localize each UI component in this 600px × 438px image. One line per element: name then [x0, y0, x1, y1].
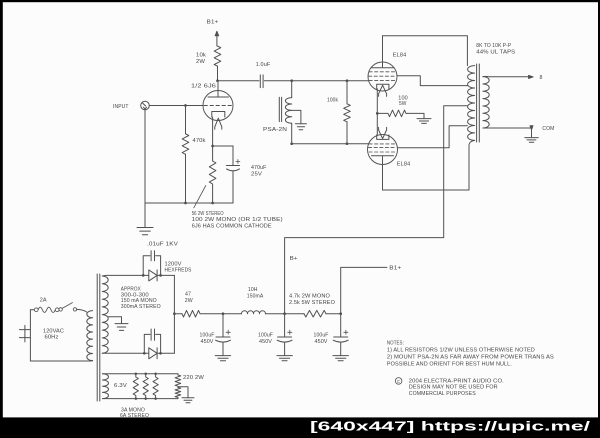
ground cathode resistor	[417, 119, 431, 124]
heater filament 2	[143, 374, 148, 399]
svg-text:150mA: 150mA	[247, 294, 264, 300]
wire plug to fuse	[30, 309, 34, 311]
wire V3 g2 to UL tap	[398, 126, 468, 148]
node 100k top	[346, 79, 349, 82]
svg-text:INPUT: INPUT	[113, 104, 129, 110]
resistor 100k grid return	[344, 104, 351, 122]
wire choke to 4.7k	[266, 313, 305, 315]
node PSA-2N top	[290, 79, 293, 82]
node shared cathodes	[376, 112, 379, 115]
wire rect node to 47R	[174, 313, 182, 315]
tube V1 cathode bracket	[212, 112, 225, 118]
tube V2 plate bar and lead	[372, 36, 394, 68]
wire T2 primary bottom to V3 plate	[383, 140, 475, 190]
wire heater bottom bus	[103, 398, 178, 400]
svg-text:10k: 10k	[196, 52, 206, 58]
tube V2 cathode bracket	[377, 84, 389, 89]
ground cap1	[215, 356, 231, 361]
wire V1 cathode down	[212, 117, 214, 146]
leader line cathode resistor note	[194, 186, 206, 208]
node first filter cap	[222, 312, 225, 315]
ground main input bus	[137, 203, 153, 235]
svg-text:6.3V: 6.3V	[114, 383, 127, 389]
wire bypass cap bottom lead	[232, 171, 234, 203]
wire coupling cap to grids	[264, 80, 368, 82]
capacitor 470uF 25V plates	[227, 166, 240, 171]
transformer T2 primary winding	[468, 66, 475, 141]
svg-text:1) ALL RESISTORS 1/2W UNLESS O: 1) ALL RESISTORS 1/2W UNLESS OTHERWISE N…	[387, 348, 535, 354]
tube V3 grid g2 dashed	[369, 147, 397, 149]
arrow B1+ feed	[215, 31, 219, 36]
arrow terminal COM	[530, 126, 533, 130]
wire COM to ground	[531, 130, 533, 138]
snubber loop bottom	[144, 334, 160, 353]
svg-text:47: 47	[185, 292, 191, 298]
tube V2 heater	[379, 85, 387, 96]
wire PSA-2N center tap	[292, 110, 301, 123]
svg-text:B+: B+	[290, 256, 298, 262]
wire input jack shield down	[144, 110, 146, 203]
tube V1 grid dashed	[204, 105, 232, 107]
wire V2 plate top rail	[383, 36, 468, 66]
svg-text:100 2W MONO (OR 1/2 TUBE): 100 2W MONO (OR 1/2 TUBE)	[192, 217, 283, 223]
wire heater top bus	[103, 373, 178, 375]
wire T1 CT tap	[108, 317, 121, 324]
autoformer PSA-2N winding	[285, 98, 291, 124]
tube V3 plate bar and lead	[372, 156, 394, 190]
svg-text:2W: 2W	[185, 298, 194, 304]
wire bypass cap top lead	[232, 146, 234, 166]
transformer T2 core	[477, 64, 480, 142]
svg-text:POSSIBLE AND ORIENT FOR BEST H: POSSIBLE AND ORIENT FOR BEST HUM NULL.	[387, 362, 512, 368]
svg-text:1.0uF: 1.0uF	[256, 62, 271, 68]
wire cathode to bypass cap	[213, 145, 233, 147]
ground T1 center tap	[115, 324, 128, 331]
svg-text:B1+: B1+	[207, 20, 219, 26]
wire 470k bottom lead	[185, 154, 187, 203]
svg-text:6A STEREO: 6A STEREO	[120, 413, 149, 419]
transformer T1 6.3V winding	[103, 374, 109, 399]
transformer T2 secondary winding	[483, 77, 489, 128]
polarity + cap1	[226, 330, 230, 334]
wire diode D1 out	[157, 274, 174, 276]
node 470k to ground bus	[184, 202, 187, 205]
tube V2 grid g1 dashed	[369, 80, 396, 82]
node heater 2 bottom	[144, 397, 147, 400]
svg-text:EL84: EL84	[393, 52, 407, 58]
wire 470k top lead	[185, 106, 187, 134]
node heater 1 top	[135, 373, 138, 376]
wire T2 secondary top to 8 ohm	[483, 75, 529, 77]
wire cap2 top lead	[284, 314, 286, 337]
svg-text:220 2W: 220 2W	[183, 375, 205, 381]
wire 10k to plate node	[217, 66, 219, 81]
wire plate node to coupling cap	[218, 80, 260, 82]
capacitor 100uF 450V no3	[333, 337, 348, 342]
wire plug vertical	[29, 310, 31, 361]
tube V3 heater	[379, 127, 387, 138]
wire humdinger tap to ground	[178, 387, 188, 398]
svg-text:.01uF 1KV: .01uF 1KV	[147, 242, 178, 248]
svg-text:C: C	[397, 379, 400, 384]
capacitor 100uF 450V no1	[216, 337, 231, 342]
wire PSA-2N bottom lead	[291, 123, 293, 144]
node snubber bottom left	[143, 352, 146, 355]
wire input jack to 6J6 grid	[149, 105, 203, 107]
wire 100k bottom lead	[346, 122, 348, 144]
node grid 6J6 / 470k junction	[184, 104, 187, 107]
svg-text:8: 8	[540, 75, 543, 81]
copyright symbol	[395, 378, 402, 385]
wire cathodes to 100R	[377, 112, 388, 114]
node snubber bottom right	[159, 352, 162, 355]
svg-text:450V: 450V	[259, 339, 272, 345]
capacitor 100uF 450V no2	[277, 337, 292, 342]
tube V3 grid g1 dashed	[369, 143, 396, 145]
heater filament 3	[153, 374, 158, 399]
snubber loop top	[143, 256, 160, 276]
wire ground bus under input stage	[145, 202, 233, 204]
capacitor 1.0uF coupling	[260, 75, 263, 88]
wire 100R to ground	[406, 113, 424, 118]
transformer T1 HV secondary winding	[102, 276, 108, 353]
wire cathode resistor bottom lead	[212, 184, 214, 203]
wire 47R to choke	[200, 313, 242, 315]
tube V3 EL84 envelope	[368, 135, 398, 165]
polarity + 470uF	[236, 160, 240, 164]
node 100k bottom	[346, 142, 349, 145]
tube V3 grid g3 dashed	[369, 151, 396, 153]
wire plug bottom to primary	[30, 360, 92, 362]
svg-text:COM: COM	[542, 126, 554, 132]
svg-text:8K TO 10K P-P: 8K TO 10K P-P	[476, 43, 511, 49]
tube V1 1/2 6J6 envelope	[203, 91, 233, 121]
input jack J1	[141, 101, 150, 110]
svg-text:100k: 100k	[327, 97, 338, 103]
resistor 220 2W humdinger	[175, 374, 181, 399]
wire B1+ to 10k	[216, 35, 218, 46]
svg-text:5W: 5W	[399, 101, 407, 107]
heater filament 1	[133, 374, 138, 399]
wire cap1 top lead	[222, 314, 224, 337]
svg-text:2.5k 5W STEREO: 2.5k 5W STEREO	[289, 300, 336, 306]
transformer T1 primary winding	[87, 311, 93, 361]
resistor 47 2W	[182, 310, 200, 317]
wire cap3 bottom lead	[340, 342, 342, 355]
svg-text:100uF: 100uF	[314, 332, 329, 338]
node B1+ filter cap	[339, 312, 342, 315]
resistor 4.7k/2.5k dropping	[304, 310, 326, 317]
svg-text:1/2 6J6: 1/2 6J6	[191, 84, 216, 90]
svg-text:NOTES:: NOTES:	[387, 341, 404, 347]
svg-text:PSA-2N: PSA-2N	[263, 127, 287, 133]
svg-text:2004 ELECTRA-PRINT AUDIO CO.: 2004 ELECTRA-PRINT AUDIO CO.	[409, 378, 504, 384]
svg-text:4.7k 2W MONO: 4.7k 2W MONO	[289, 293, 331, 299]
polarity + cap3	[344, 330, 348, 334]
wire V3 cathode up	[376, 113, 378, 134]
tube V1 heater	[215, 118, 222, 129]
tube V3 cathode bracket	[377, 135, 389, 140]
fuse 2A	[34, 307, 59, 312]
svg-text:100uF: 100uF	[258, 332, 273, 338]
tube V2 grid g2 dashed	[369, 75, 397, 77]
svg-text:EL84: EL84	[397, 161, 411, 167]
node PSA-2N bottom	[290, 142, 293, 145]
capacitor .01uF snubber top	[151, 251, 154, 261]
svg-text:56 2W STEREO: 56 2W STEREO	[192, 211, 224, 217]
wire lower grid bus	[292, 143, 369, 145]
plug 120VAC prongs	[19, 325, 30, 342]
resistor 100 5W cathode bias	[388, 110, 406, 117]
switch power	[59, 303, 77, 311]
node heater 1 bottom	[135, 397, 138, 400]
wire T2 secondary bottom to COM	[483, 127, 532, 129]
wire cap1 bottom lead	[222, 342, 224, 355]
ground cap2	[277, 356, 293, 361]
choke 10H 150mA	[242, 311, 266, 314]
svg-text:2W: 2W	[196, 59, 206, 65]
svg-text:COMMERCIAL PURPOSES: COMMERCIAL PURPOSES	[409, 391, 476, 397]
resistor 10k 2W plate load	[214, 46, 221, 66]
wire 100k top lead	[346, 81, 348, 104]
node heater 2 top	[144, 373, 147, 376]
svg-text:6J6 HAS COMMON CATHODE: 6J6 HAS COMMON CATHODE	[192, 223, 272, 229]
wire HV top to diode	[102, 274, 149, 277]
svg-text:100uF: 100uF	[200, 332, 215, 338]
wire PSA-2N top lead	[291, 81, 293, 98]
svg-text:44% UL TAPS: 44% UL TAPS	[476, 49, 515, 55]
wire HV bottom to diode	[102, 352, 149, 354]
arrow terminal 8 ohm	[529, 75, 534, 78]
wire V2 g2 to UL tap	[397, 76, 467, 86]
ground COM terminal	[525, 138, 539, 143]
tube V1 plate bar and lead	[208, 81, 229, 97]
svg-text:2) MOUNT PSA-2N AS FAR AWAY FR: 2) MOUNT PSA-2N AS FAR AWAY FROM POWER T…	[387, 355, 554, 361]
node cathode resistor to ground bus	[211, 202, 214, 205]
svg-text:450V: 450V	[201, 339, 214, 345]
svg-text:470uF: 470uF	[251, 165, 267, 171]
svg-text:60Hz: 60Hz	[45, 334, 59, 340]
svg-text:10H: 10H	[248, 287, 258, 293]
wire V2 cathode down	[376, 89, 378, 114]
resistor 470k grid	[182, 134, 189, 155]
wire B1+ feed	[341, 267, 387, 313]
svg-text:25V: 25V	[251, 171, 262, 177]
node heater 3 top	[154, 373, 157, 376]
wire rectifier output vertical	[173, 275, 175, 353]
wire cathode resistor top lead	[212, 146, 214, 161]
tube V2 grid g3 dashed	[369, 71, 396, 73]
resistor cathode 56/100 ohm	[209, 161, 216, 184]
wire 4.7k to B1+ node	[326, 313, 341, 315]
wire switch to primary	[77, 309, 87, 312]
svg-text:DESIGN MAY NOT BE USED FOR: DESIGN MAY NOT BE USED FOR	[409, 385, 498, 391]
ground humdinger	[182, 398, 194, 403]
wire cap2 bottom lead	[284, 342, 286, 355]
svg-text:B1+: B1+	[389, 265, 401, 271]
autoformer PSA-2N core	[279, 97, 281, 121]
svg-text:450V: 450V	[315, 339, 328, 345]
svg-text:[640x447] https://upic.me/: [640x447] https://upic.me/	[310, 419, 591, 434]
capacitor .01uF snubber bottom	[151, 329, 154, 340]
wire B+ center tap feed	[285, 106, 468, 314]
polarity + cap2	[288, 330, 292, 334]
node rectifier output	[173, 312, 176, 315]
node heater 3 bottom	[154, 397, 157, 400]
ground cap3	[333, 356, 349, 361]
svg-text:HEXFREDS: HEXFREDS	[165, 267, 192, 273]
transformer T1 core	[97, 274, 100, 401]
diode D2 hexfred	[149, 348, 157, 359]
wire cap3 top lead	[340, 314, 342, 337]
diode D1 hexfred	[149, 270, 157, 281]
node snubber top left	[142, 274, 145, 277]
tube V2 EL84 envelope	[368, 62, 397, 91]
node 6J6 plate / 10k / coupling cap	[216, 79, 219, 82]
wire diode D2 out	[157, 352, 174, 354]
svg-text:470k: 470k	[193, 138, 206, 144]
svg-text:300mA STEREO: 300mA STEREO	[121, 304, 162, 310]
node snubber top right	[159, 274, 162, 277]
ground PSA-2N tap	[295, 124, 306, 130]
node V1 cathode junction	[211, 145, 214, 148]
node B+ filter cap	[283, 312, 286, 315]
svg-text:2A: 2A	[40, 297, 47, 303]
